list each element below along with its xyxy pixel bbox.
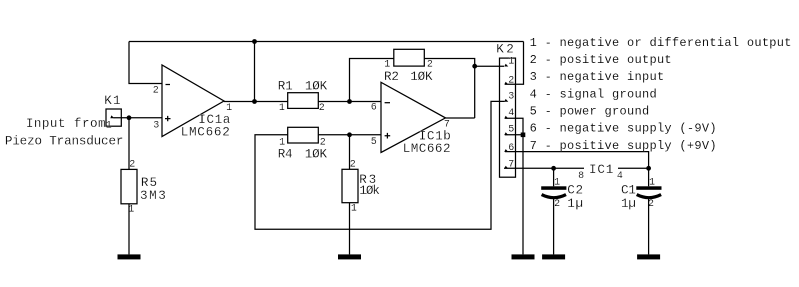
label IC1 (power) [589,163,614,177]
connector K2 [500,58,516,177]
wire vertical from top bus to IC1a output node [254,42,256,102]
wire C2 to ground [553,199,555,255]
pin number 1 C1 [649,177,655,188]
op-amp IC1a minus sign [166,84,171,86]
svg-text:5: 5 [508,124,514,135]
pin number 1 K2 [508,57,514,68]
svg-text:1ØK: 1ØK [410,70,433,84]
node junction IC1a output [252,99,257,104]
op-amp IC1b plus sign [385,133,391,139]
label K1 [104,94,122,108]
wire R1 to IC1b pin 6 [318,101,381,103]
wire K1 node down to R5 [128,118,130,170]
value 10K (R2) [410,70,433,84]
pin number 7 IC1b [444,120,450,131]
capacitor C1 [636,186,661,197]
label IC1a [198,113,231,127]
pin number 2 R1 [319,103,325,114]
pin number 1 R5 [128,205,134,216]
svg-text:1: 1 [508,57,514,68]
svg-text:4: 4 [508,108,514,119]
pin number 1 R3 [351,204,357,215]
wire right vertical down to K2 pin 2 [505,42,524,85]
label R2 [384,70,399,84]
svg-text:2: 2 [319,103,325,114]
svg-text:7: 7 [508,160,514,171]
wire K1 to IC1a pin 3 [114,117,163,119]
connector K1 pin arrow [110,115,114,118]
pin number 5 K2 [508,124,514,135]
node junction K1/R5 [127,115,132,120]
node K2 pin description list [530,36,792,153]
node junction K2 pin5/ground riser [521,133,526,138]
value 10K (R4) [305,148,328,162]
svg-text:K1: K1 [104,94,122,108]
wire K2 pin 1 stub from output node [475,65,504,67]
op-amp U IC1a [162,65,224,137]
svg-text:1µ: 1µ [567,197,584,211]
svg-text:2: 2 [508,75,514,86]
ground under R3 [338,254,361,259]
connector K2 pin 5 arrow [504,132,508,135]
svg-text:R4: R4 [278,148,293,162]
svg-text:1: 1 [106,120,112,131]
wire supply node down to C1 [648,168,650,186]
svg-text:3: 3 [153,120,159,131]
svg-text:2 - positive output: 2 - positive output [530,53,672,67]
node junction top at IC1a output riser [252,39,257,44]
wire K2 pin 7 positive supply to IC1 pin 8 [504,167,584,169]
svg-text:2: 2 [554,199,560,210]
pin number 2 IC1a [153,85,159,96]
wire C1 to ground [648,199,650,255]
label C2 [567,184,584,198]
svg-text:1 - negative or differential o: 1 - negative or differential output [530,36,792,50]
node junction C1/negative supply [646,166,651,171]
value 10K (R1) [305,80,328,94]
pin number 1 K1 [106,120,112,131]
ground under C2 [542,254,565,259]
pin number 5 IC1b [371,137,377,148]
pin number 1 IC1a [226,103,232,114]
pin number 8 IC1 [578,171,584,182]
pin number 6 IC1b [371,102,377,113]
value LMC662 (IC1b) [403,142,451,156]
svg-text:2: 2 [350,159,356,170]
pin number 2 R3 [350,159,356,170]
svg-text:6: 6 [508,143,514,154]
resistor R2 [394,49,425,66]
svg-text:7 - positive supply (+9V): 7 - positive supply (+9V) [530,139,717,153]
wire IC1a output to R1 [224,101,288,103]
op-amp IC1a plus sign [165,116,171,121]
svg-text:LMC662: LMC662 [403,142,451,156]
pin number 4 IC1 [617,171,623,182]
svg-text:5 - power ground: 5 - power ground [530,105,650,119]
svg-text:K2: K2 [496,42,516,56]
wire R5 to ground [128,204,130,255]
value 1u (C1) [621,197,636,211]
connector K2 pin 4 arrow [504,116,508,119]
node junction R1/R2/IC1b pin6 [347,99,352,104]
node junction C2/positive supply [551,166,556,171]
svg-text:1: 1 [351,204,357,215]
ground under K2 [512,254,535,259]
wire K2 pin 5 stub [505,134,523,136]
svg-text:LMC662: LMC662 [181,126,231,140]
pin number 2 R5 [129,159,135,170]
value LMC662 (IC1a) [181,126,231,140]
pin number 3 IC1a [153,120,159,131]
connector K2 pin 6 arrow [504,149,508,152]
node junction R4/R3/IC1b pin5 [347,132,352,137]
label R4 [278,148,293,162]
op-amp U IC1b [381,82,446,152]
connector K2 pin 7 arrow [504,166,508,169]
label C1 [621,184,636,198]
svg-text:1: 1 [279,103,285,114]
connector K2 pin 3 arrow [504,99,508,102]
svg-text:R2: R2 [384,70,399,84]
svg-text:4: 4 [617,171,623,182]
pin number 1 C2 [554,177,560,188]
pin number 2 C1 [648,199,654,210]
wire IC1a feedback left down to pin 2 [129,42,162,84]
resistor R5 [121,169,137,203]
wire K2 pin 4 to ground [505,118,523,254]
label R1 [278,80,293,94]
wire IC1 pin 4 to C1 node [618,167,649,169]
svg-text:R1: R1 [278,80,293,94]
resistor R4 [288,127,319,143]
wire supply node down to C2 [553,168,555,186]
node junction R2/IC1b output/K2 pin1 [472,64,477,69]
pin number 1 R4 [279,137,285,148]
pin number 3 K2 [508,92,514,103]
pin number 2 C2 [554,199,560,210]
pin number 6 K2 [508,143,514,154]
label R3 [359,173,378,187]
wire node up to R2 [350,59,394,102]
capacitor C2 [541,186,566,197]
svg-text:C1: C1 [621,184,636,198]
svg-text:Piezo Transducer: Piezo Transducer [5,134,123,148]
svg-text:3M3: 3M3 [140,189,167,203]
pin number 7 K2 [508,160,514,171]
pin number 1 R1 [279,103,285,114]
wire node down to R3 [349,135,351,170]
wire R3 to ground [349,203,351,255]
svg-text:6 - negative supply (-9V): 6 - negative supply (-9V) [530,122,717,136]
wire K2 pin 6 negative supply to C1 node [505,152,649,169]
pin number 2 R2 [427,60,433,71]
svg-text:1µ: 1µ [621,197,636,211]
wire negative input net: R4 left, down, across, up to K2 pin 3 [255,101,505,229]
svg-text:2: 2 [129,159,135,170]
resistor R1 [288,93,319,109]
node input label line 2 [5,134,123,148]
svg-text:3: 3 [508,92,514,103]
pin number 4 K2 [508,108,514,119]
connector K2 pin 1 arrow [504,64,508,67]
svg-text:2: 2 [153,85,159,96]
resistor R3 [342,169,358,202]
svg-text:IC1: IC1 [589,163,614,177]
wire R4 to IC1b pin 5 [318,134,381,136]
ground under C1 [637,254,660,259]
svg-text:8: 8 [578,171,584,182]
value 3M3 (R5) [140,189,167,203]
svg-text:6: 6 [371,102,377,113]
svg-text:5: 5 [371,137,377,148]
connector K2 pin 2 arrow [504,82,508,85]
wire R2 to output node, down to IC1b output [424,59,474,119]
pin number 2 K2 [508,75,514,86]
svg-text:2: 2 [427,60,433,71]
pin number 2 R4 [320,137,326,148]
label R5 [141,176,158,190]
node input label line 1 [26,117,106,131]
label K2 [496,42,516,56]
svg-text:1Øk: 1Øk [359,184,379,198]
ground under R5 [118,254,141,259]
svg-text:4 - signal ground: 4 - signal ground [530,87,657,101]
svg-text:C2: C2 [567,184,584,198]
svg-text:1ØK: 1ØK [305,80,328,94]
wire top feedback/output bus (IC1a out to K2 pin2) [129,41,524,43]
label IC1b [419,129,452,143]
svg-text:Input from: Input from [26,117,106,131]
pin number 1 R2 [384,60,390,71]
svg-text:R5: R5 [141,176,158,190]
wire IC1b output [446,117,475,119]
op-amp IC1b minus sign [385,102,390,104]
connector K1 [106,109,121,126]
svg-text:1: 1 [384,60,390,71]
value 10k (R3) [359,184,379,198]
svg-text:1ØK: 1ØK [305,148,328,162]
value 1u (C2) [567,197,584,211]
svg-text:3 - negative input: 3 - negative input [530,70,665,84]
